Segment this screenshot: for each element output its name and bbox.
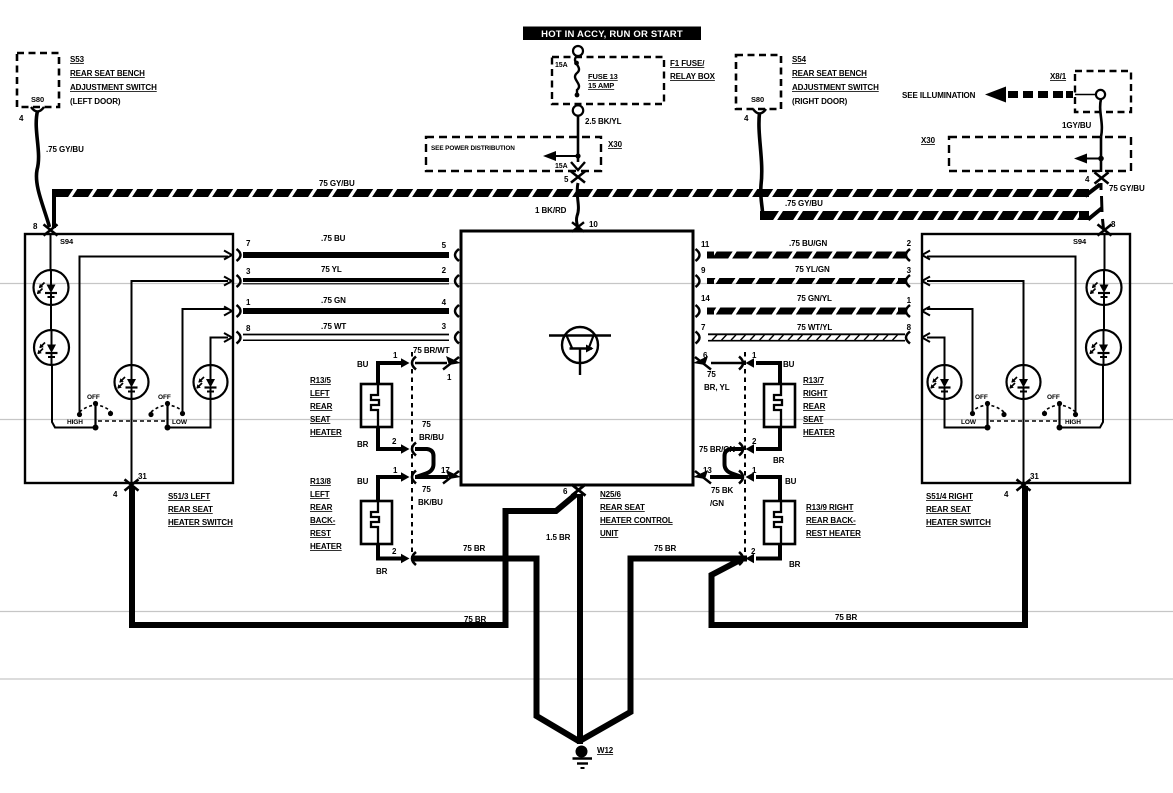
svg-text:31: 31: [1030, 472, 1039, 481]
svg-text:REAR SEAT BENCH: REAR SEAT BENCH: [792, 69, 867, 78]
svg-text:R13/9 RIGHT: R13/9 RIGHT: [806, 503, 854, 512]
svg-text:11: 11: [701, 240, 710, 249]
svg-text:75 BR: 75 BR: [463, 544, 485, 553]
svg-text:W12: W12: [597, 746, 614, 755]
svg-text:75 GY/BU: 75 GY/BU: [319, 179, 355, 188]
svg-text:75 BR: 75 BR: [464, 615, 486, 624]
svg-text:BR/BU: BR/BU: [419, 433, 444, 442]
svg-text:75 BR: 75 BR: [654, 544, 676, 553]
svg-text:6: 6: [703, 351, 708, 360]
svg-text:3: 3: [442, 322, 447, 331]
svg-text:8: 8: [246, 324, 251, 333]
svg-text:1: 1: [752, 466, 757, 475]
svg-text:REAR: REAR: [803, 402, 826, 411]
svg-text:75 BR/GN: 75 BR/GN: [699, 445, 735, 454]
svg-text:BU: BU: [785, 477, 797, 486]
svg-text:4: 4: [1004, 490, 1009, 499]
svg-text:R13/7: R13/7: [803, 376, 824, 385]
svg-text:.75 WT: .75 WT: [321, 322, 346, 331]
svg-text:REAR SEAT: REAR SEAT: [168, 505, 213, 514]
svg-text:5: 5: [442, 241, 447, 250]
svg-text:8: 8: [907, 323, 912, 332]
svg-text:BR: BR: [376, 567, 388, 576]
svg-text:HIGH: HIGH: [67, 419, 83, 426]
svg-text:5: 5: [564, 175, 569, 184]
svg-text:75: 75: [707, 370, 716, 379]
svg-text:REAR BACK-: REAR BACK-: [806, 516, 856, 525]
svg-text:BACK-: BACK-: [310, 516, 336, 525]
svg-text:ADJUSTMENT SWITCH: ADJUSTMENT SWITCH: [792, 83, 879, 92]
svg-text:/GN: /GN: [710, 499, 724, 508]
svg-text:X30: X30: [608, 140, 623, 149]
svg-text:6: 6: [563, 487, 568, 496]
svg-text:.75 GY/BU: .75 GY/BU: [785, 199, 823, 208]
svg-text:REAR: REAR: [310, 402, 333, 411]
svg-text:1 BK/RD: 1 BK/RD: [535, 206, 567, 215]
svg-text:9: 9: [701, 266, 706, 275]
svg-text:7: 7: [701, 323, 706, 332]
svg-text:1: 1: [907, 296, 912, 305]
svg-text:REAR SEAT BENCH: REAR SEAT BENCH: [70, 69, 145, 78]
svg-text:HEATER: HEATER: [310, 428, 342, 437]
svg-text:2: 2: [442, 266, 447, 275]
svg-text:HEATER: HEATER: [803, 428, 835, 437]
svg-text:75 BR: 75 BR: [835, 613, 857, 622]
svg-text:7: 7: [246, 239, 251, 248]
svg-text:75 WT/YL: 75 WT/YL: [797, 323, 832, 332]
svg-text:ADJUSTMENT SWITCH: ADJUSTMENT SWITCH: [70, 83, 157, 92]
svg-text:.75 GY/BU: .75 GY/BU: [46, 145, 84, 154]
svg-text:75 GY/BU: 75 GY/BU: [1109, 184, 1145, 193]
svg-text:4: 4: [744, 114, 749, 123]
svg-text:S80: S80: [31, 95, 44, 104]
svg-text:BU: BU: [783, 360, 795, 369]
svg-text:BR: BR: [789, 560, 801, 569]
svg-text:BK/BU: BK/BU: [418, 498, 443, 507]
svg-text:X30: X30: [921, 136, 936, 145]
svg-text:17: 17: [441, 466, 450, 475]
svg-text:OFF: OFF: [1047, 394, 1060, 401]
svg-text:4: 4: [113, 490, 118, 499]
svg-text:SEAT: SEAT: [310, 415, 331, 424]
svg-text:LEFT: LEFT: [310, 490, 330, 499]
svg-text:1: 1: [246, 298, 251, 307]
svg-text:S53: S53: [70, 55, 85, 64]
svg-text:3: 3: [246, 267, 251, 276]
svg-text:RELAY BOX: RELAY BOX: [670, 72, 716, 81]
svg-text:31: 31: [138, 472, 147, 481]
svg-text:1: 1: [393, 351, 398, 360]
svg-text:REAR: REAR: [310, 503, 333, 512]
svg-text:OFF: OFF: [87, 394, 100, 401]
svg-text:2: 2: [907, 239, 912, 248]
svg-text:2: 2: [751, 547, 756, 556]
svg-text:BU: BU: [357, 360, 369, 369]
svg-text:HIGH: HIGH: [1065, 419, 1081, 426]
svg-text:75 YL: 75 YL: [321, 265, 342, 274]
svg-text:15A: 15A: [555, 62, 568, 69]
svg-text:.75 GN: .75 GN: [321, 296, 346, 305]
svg-text:13: 13: [703, 466, 712, 475]
svg-text:.75 BU: .75 BU: [321, 234, 346, 243]
svg-text:LEFT: LEFT: [310, 389, 330, 398]
svg-text:UNIT: UNIT: [600, 529, 618, 538]
svg-text:S54: S54: [792, 55, 807, 64]
svg-text:HOT IN ACCY, RUN OR START: HOT IN ACCY, RUN OR START: [541, 29, 683, 40]
svg-text:8: 8: [1111, 220, 1116, 229]
svg-text:REST HEATER: REST HEATER: [806, 529, 861, 538]
svg-text:15A: 15A: [555, 163, 568, 170]
svg-text:REAR SEAT: REAR SEAT: [926, 505, 971, 514]
svg-text:2: 2: [752, 437, 757, 446]
svg-text:4: 4: [1085, 175, 1090, 184]
svg-text:LOW: LOW: [172, 419, 188, 426]
svg-text:14: 14: [701, 294, 710, 303]
svg-text:2: 2: [392, 437, 397, 446]
svg-text:OFF: OFF: [975, 394, 988, 401]
svg-text:1.5 BR: 1.5 BR: [546, 533, 571, 542]
svg-text:(RIGHT DOOR): (RIGHT DOOR): [792, 97, 848, 106]
svg-text:2.5 BK/YL: 2.5 BK/YL: [585, 117, 622, 126]
svg-text:4: 4: [19, 114, 24, 123]
svg-text:HEATER CONTROL: HEATER CONTROL: [600, 516, 673, 525]
svg-text:BR, YL: BR, YL: [704, 383, 730, 392]
svg-text:HEATER: HEATER: [310, 542, 342, 551]
svg-text:SEE POWER DISTRIBUTION: SEE POWER DISTRIBUTION: [431, 145, 515, 152]
svg-text:REST: REST: [310, 529, 331, 538]
svg-text:75 GN/YL: 75 GN/YL: [797, 294, 832, 303]
svg-text:HEATER SWITCH: HEATER SWITCH: [168, 518, 233, 527]
svg-text:.75 BU/GN: .75 BU/GN: [789, 239, 828, 248]
svg-text:REAR SEAT: REAR SEAT: [600, 503, 645, 512]
svg-text:1: 1: [447, 373, 452, 382]
svg-text:FUSE 13: FUSE 13: [588, 72, 618, 81]
svg-text:BU: BU: [357, 477, 369, 486]
svg-text:OFF: OFF: [158, 394, 171, 401]
svg-text:15 AMP: 15 AMP: [588, 81, 614, 90]
svg-text:3: 3: [907, 266, 912, 275]
svg-text:4: 4: [442, 298, 447, 307]
svg-text:(LEFT DOOR): (LEFT DOOR): [70, 97, 121, 106]
svg-text:F1 FUSE/: F1 FUSE/: [670, 59, 705, 68]
svg-text:2: 2: [392, 547, 397, 556]
svg-text:75: 75: [422, 485, 431, 494]
svg-text:1GY/BU: 1GY/BU: [1062, 121, 1092, 130]
svg-text:75 BK: 75 BK: [711, 486, 733, 495]
svg-text:SEAT: SEAT: [803, 415, 824, 424]
svg-text:R13/5: R13/5: [310, 376, 331, 385]
svg-text:S51/4 RIGHT: S51/4 RIGHT: [926, 492, 973, 501]
svg-text:SEE ILLUMINATION: SEE ILLUMINATION: [902, 91, 976, 100]
svg-text:BR: BR: [773, 456, 785, 465]
svg-text:X8/1: X8/1: [1050, 72, 1067, 81]
svg-text:LOW: LOW: [961, 419, 977, 426]
svg-text:75: 75: [422, 420, 431, 429]
svg-text:S94: S94: [60, 237, 74, 246]
svg-text:S80: S80: [751, 95, 764, 104]
svg-text:1: 1: [393, 466, 398, 475]
svg-text:S94: S94: [1073, 237, 1087, 246]
svg-text:R13/8: R13/8: [310, 477, 331, 486]
svg-text:75 BR/WT: 75 BR/WT: [413, 346, 450, 355]
svg-text:S51/3 LEFT: S51/3 LEFT: [168, 492, 210, 501]
svg-text:10: 10: [589, 220, 598, 229]
svg-text:HEATER SWITCH: HEATER SWITCH: [926, 518, 991, 527]
svg-text:75 YL/GN: 75 YL/GN: [795, 265, 830, 274]
svg-text:1: 1: [752, 351, 757, 360]
svg-text:BR: BR: [357, 440, 369, 449]
svg-text:RIGHT: RIGHT: [803, 389, 828, 398]
svg-text:8: 8: [33, 222, 38, 231]
svg-text:N25/6: N25/6: [600, 490, 621, 499]
